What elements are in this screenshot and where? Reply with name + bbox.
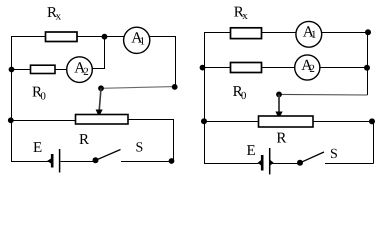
node: rheostat row junction dot on left bus (left circuit) [8, 117, 14, 123]
wire: left circuit second row from bus to R0 [11, 69, 31, 71]
wire: A1 to right vertical (left circuit) [149, 36, 176, 38]
node: second row junction dot on left bus (right circuit) [200, 65, 206, 71]
ammeter A1 (left circuit) [124, 27, 150, 53]
node: bottom right junction dot (left circuit) [169, 158, 175, 164]
wire: rheostat right to lower right vertical (left circuit) [128, 120, 174, 162]
wiper arrow onto rheostat R (left circuit) [96, 88, 103, 117]
wire: R0 to A2 (left circuit) [55, 69, 68, 71]
ammeter A2 (right circuit) [295, 55, 320, 80]
wire: right circuit upper right vertical [367, 33, 369, 96]
svg-text:1: 1 [140, 36, 146, 48]
wire: Rx to A1 (right circuit) [262, 32, 298, 34]
wire: Rx to node A (left circuit) [77, 36, 125, 38]
wire: bottom row left segment to battery (left circuit) [11, 161, 49, 163]
ammeter A2 (left circuit) [67, 57, 93, 83]
wire: wiper link from right vertical to node (right circuit) [279, 93, 368, 96]
battery E (right circuit) [258, 148, 274, 174]
wire: R0 to A2 (right circuit) [262, 67, 297, 69]
svg-text:1: 1 [311, 29, 317, 41]
battery E (left circuit) [47, 149, 60, 173]
svg-text:S: S [136, 141, 144, 156]
ammeter A1 (right circuit) [296, 21, 322, 47]
svg-text:R: R [79, 132, 89, 148]
node B: wiper junction dot left (left circuit) [98, 85, 104, 91]
node: rheostat row junction dot on left bus (right circuit) [201, 118, 207, 124]
wire: left circuit upper right vertical [175, 37, 177, 88]
wire: switch right terminal (left circuit) [121, 161, 172, 163]
rheostat R (left circuit) [76, 115, 129, 125]
resistor R0 (left circuit) [31, 65, 56, 73]
svg-text:E: E [247, 143, 256, 159]
node: wiper junction dot right (left circuit) [172, 84, 178, 90]
resistor Rx (left circuit) [46, 32, 78, 42]
svg-text:R: R [276, 131, 286, 147]
node A: top junction dot (left circuit) [102, 34, 108, 40]
wire: right circuit left vertical bus [204, 33, 206, 164]
node: second row junction dot on left bus (left circuit) [9, 67, 15, 73]
wire: bottom row left segment to battery (right circuit) [204, 163, 259, 165]
wire: rheostat row from left bus (right circuit) [204, 121, 259, 123]
svg-text:2: 2 [83, 66, 89, 78]
wire: left circuit top row (Rx branch) [11, 36, 45, 38]
wire: left circuit left vertical bus [11, 37, 13, 162]
node: top right junction dot (right circuit) [365, 29, 371, 35]
svg-text:2: 2 [309, 63, 315, 75]
switch S (left circuit) [93, 150, 121, 164]
wire: battery to switch (left circuit) [60, 161, 95, 163]
wiper arrow onto rheostat R (right circuit) [275, 94, 282, 119]
node: rheostat right junction dot (right circuit) [369, 118, 375, 124]
wire: right circuit lower right vertical [373, 122, 375, 164]
wire: battery to switch (right circuit) [271, 163, 300, 165]
wire: A2 right link up to node A (left circuit) [92, 37, 105, 69]
node: wiper junction dot (right circuit) [276, 92, 282, 98]
wire: A1 to top right node (right circuit) [321, 32, 368, 34]
wire: wiper link from node B to right vertical (left circuit) [101, 87, 175, 89]
resistor Rx (right circuit) [231, 28, 262, 39]
wire: right circuit top row to Rx [204, 32, 231, 34]
svg-text:S: S [330, 147, 338, 162]
svg-text:E: E [33, 140, 42, 156]
switch S (right circuit) [297, 152, 324, 166]
wire: A2 to right vertical node (right circuit) [320, 67, 368, 69]
wire: rheostat right to node (right circuit) [313, 121, 372, 123]
wire: right circuit second row from bus to R0 [204, 67, 231, 69]
rheostat R (right circuit) [259, 116, 314, 127]
wire: switch right terminal to bottom right corner (right circuit) [325, 163, 374, 165]
node: second row right junction dot (right circuit) [364, 65, 370, 71]
wire: rheostat row from left bus (left circuit) [11, 120, 76, 122]
resistor R0 (right circuit) [231, 63, 262, 73]
